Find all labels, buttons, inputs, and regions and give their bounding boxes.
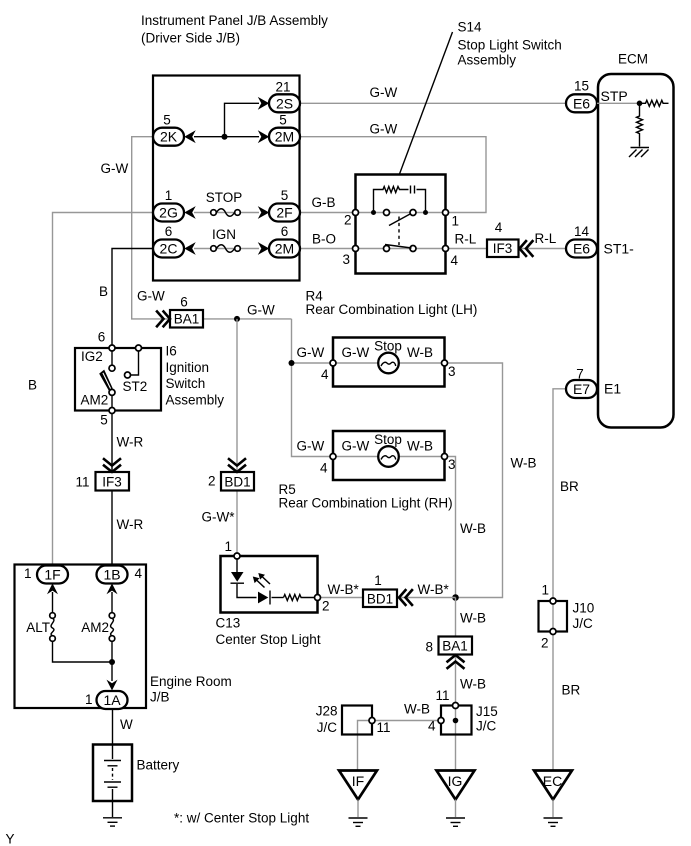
wire W-R from IF3 down to engine room J/B 1B — [111, 491, 113, 567]
svg-text:ALT: ALT — [26, 620, 50, 635]
C13 terminal circles — [234, 553, 240, 559]
svg-text:6: 6 — [281, 224, 289, 239]
circuit breaker AM2 — [81, 592, 115, 662]
svg-text:Stop Light Switch: Stop Light Switch — [458, 38, 562, 53]
S14 stop light switch label — [458, 20, 562, 68]
svg-text:Center Stop Light: Center Stop Light — [216, 632, 321, 647]
bulb stop lamp R4 — [378, 353, 399, 374]
bulb stop lamp R5 — [378, 446, 399, 467]
svg-text:6: 6 — [165, 224, 173, 239]
svg-text:STOP: STOP — [206, 190, 243, 205]
svg-text:4: 4 — [495, 220, 503, 235]
switch contact circles top row — [384, 210, 390, 216]
svg-text:J28: J28 — [316, 704, 338, 719]
svg-text:6: 6 — [180, 295, 188, 310]
dashed link between switch poles — [398, 217, 400, 246]
node dot switch right — [423, 210, 428, 215]
ignition contact circles — [109, 345, 115, 351]
wire down to 1A — [111, 662, 113, 681]
chevron connector at BD1 1 — [399, 590, 412, 605]
ECM box — [598, 74, 674, 428]
connector oval 2M pin 6 — [269, 224, 300, 258]
svg-text:EC: EC — [543, 773, 562, 789]
wire B-O from 2M to switch pin 3 — [300, 248, 355, 250]
connector oval 2K pin 5 — [153, 113, 184, 146]
connector BA1 pin 8 — [425, 637, 472, 655]
svg-text:Stop: Stop — [374, 432, 402, 447]
svg-text:3: 3 — [448, 457, 456, 472]
svg-text:IF3: IF3 — [102, 475, 122, 490]
svg-text:2C: 2C — [160, 241, 178, 257]
svg-text:Engine Room: Engine Room — [150, 674, 232, 689]
svg-text:(Driver Side J/B): (Driver Side J/B) — [141, 31, 240, 46]
chevron connector below BA1 — [448, 655, 464, 668]
svg-text:W-B*: W-B* — [418, 582, 450, 597]
arrow into 2M lower — [258, 242, 269, 255]
svg-text:R-L: R-L — [535, 231, 557, 246]
wire G-W down to BD1 connector 2 — [236, 319, 238, 472]
ground triangle IG — [437, 771, 475, 827]
svg-text:4: 4 — [451, 253, 459, 268]
wire W-B* from center stop light pin 2 to BD1 — [321, 597, 364, 599]
svg-text:2: 2 — [322, 599, 330, 614]
svg-text:2: 2 — [208, 474, 216, 489]
svg-text:BR: BR — [560, 479, 579, 494]
svg-text:15: 15 — [574, 79, 589, 94]
svg-text:Rear Combination Light (LH): Rear Combination Light (LH) — [306, 302, 478, 317]
chevron connector at IF3 — [520, 241, 533, 256]
connector oval 2M pin 5 — [269, 113, 300, 146]
arrow down into 1A — [107, 680, 118, 691]
node junction dot after BA1 — [234, 316, 240, 322]
arrow into 2K — [184, 130, 195, 143]
chevron connector at IF3 11 — [104, 459, 120, 472]
connector IF3 pin 11 — [75, 472, 129, 491]
wire internal switch top row — [359, 212, 443, 214]
svg-text:W-R: W-R — [117, 435, 144, 450]
wire W-B* from junction to BD1 connector 1 — [397, 597, 456, 599]
wire G-W from 2K down to BA1 connector — [132, 137, 170, 319]
battery box — [93, 745, 132, 802]
blade — [99, 370, 113, 391]
svg-text:IF3: IF3 — [493, 241, 513, 256]
svg-text:STP: STP — [601, 88, 628, 104]
svg-text:*: w/ Center Stop Light: *: w/ Center Stop Light — [174, 811, 309, 826]
ignition switch I6 box — [75, 348, 161, 411]
wire to node — [597, 102, 640, 104]
svg-text:1B: 1B — [103, 567, 120, 583]
svg-text:G-W: G-W — [342, 345, 370, 360]
connector oval 2C pin 6 — [153, 224, 184, 258]
svg-text:G-W: G-W — [297, 345, 325, 360]
wire G-W from 2S to ECM E6 STP — [300, 102, 567, 104]
wire from J28 down to IF ground — [358, 721, 370, 771]
ECM internal STP circuit — [597, 100, 669, 157]
svg-text:W-B: W-B — [460, 521, 486, 536]
svg-text:Assembly: Assembly — [166, 393, 225, 408]
leader line S14 — [400, 32, 453, 174]
battery symbol — [104, 745, 121, 818]
svg-text:Y: Y — [6, 832, 15, 846]
ground below battery — [103, 818, 122, 826]
label Engine Room J/B — [150, 674, 232, 705]
arrow up into 1B — [107, 583, 118, 594]
chevron connector at BD1 2 — [229, 459, 245, 472]
svg-text:1: 1 — [24, 566, 32, 581]
svg-text:6: 6 — [98, 330, 106, 345]
svg-text:1: 1 — [224, 539, 232, 554]
svg-text:E1: E1 — [604, 381, 621, 397]
svg-text:2F: 2F — [276, 205, 292, 221]
ground triangle IF — [339, 771, 377, 827]
svg-text:AM2: AM2 — [81, 620, 109, 635]
instrument panel J/B assembly box — [153, 76, 300, 281]
svg-text:3: 3 — [342, 252, 350, 267]
wire internal switch bottom row — [359, 248, 443, 250]
wire W-B from junction down to BA1 connector 8 — [455, 598, 457, 637]
svg-text:11: 11 — [75, 475, 89, 490]
svg-text:2K: 2K — [160, 129, 178, 145]
connector oval E6 pin 15 STP — [566, 79, 628, 113]
wire G-W from BA1 to junction and R4/R5 branch — [203, 318, 292, 320]
svg-text:5: 5 — [281, 188, 289, 203]
resistor — [284, 595, 315, 601]
wire R-L from IF3 to ECM E6 ST1- — [519, 248, 568, 250]
svg-text:ECM: ECM — [618, 52, 648, 67]
wire W-B from R5 pin 3 down to junction — [448, 457, 456, 598]
svg-text:11: 11 — [435, 688, 449, 703]
svg-text:J15: J15 — [476, 704, 498, 719]
connector oval 1B pin 4 — [97, 566, 143, 584]
connector BD1 pin 2 — [208, 472, 254, 491]
svg-text:2: 2 — [541, 636, 549, 651]
wire internal IGN fuse row — [194, 248, 259, 250]
svg-text:1: 1 — [85, 692, 93, 707]
connector IF3 pin 4 — [487, 220, 519, 257]
svg-text:ST1-: ST1- — [604, 241, 635, 257]
svg-text:14: 14 — [574, 224, 590, 239]
node junction dot G-W at R4 branch — [289, 360, 295, 366]
fuse STOP — [206, 190, 243, 216]
svg-text:B: B — [99, 284, 108, 299]
svg-text:IGN: IGN — [212, 227, 236, 242]
wire W-B from J28 to J15 — [375, 720, 439, 722]
rear combination light R4 box — [333, 338, 445, 387]
svg-text:21: 21 — [275, 80, 290, 95]
wire G-B from 2F to switch pin 2 — [300, 212, 355, 214]
wire G-W branch to R4 pin 4 — [292, 362, 334, 364]
engine room J/B box — [15, 565, 147, 709]
svg-text:J/C: J/C — [573, 616, 594, 631]
svg-text:IG: IG — [448, 773, 463, 789]
label I6 ignition switch assembly — [166, 344, 225, 408]
LED horizontal — [258, 592, 268, 604]
svg-text:J/C: J/C — [317, 720, 338, 735]
svg-text:1A: 1A — [103, 692, 121, 708]
wire internal 2K to 2M row — [194, 136, 259, 138]
svg-text:J/B: J/B — [150, 690, 170, 705]
svg-text:Battery: Battery — [137, 758, 180, 773]
svg-text:W-B: W-B — [460, 677, 486, 692]
junction connector J28 J/C — [316, 704, 391, 736]
svg-text:J/C: J/C — [476, 719, 497, 734]
svg-text:2S: 2S — [276, 95, 293, 111]
svg-text:G-W: G-W — [370, 122, 398, 137]
svg-text:I6: I6 — [166, 344, 177, 359]
arrow up into 1F — [47, 583, 58, 594]
svg-text:BA1: BA1 — [174, 312, 200, 327]
svg-text:Instrument Panel J/B Assembly: Instrument Panel J/B Assembly — [141, 13, 328, 28]
svg-text:G-W: G-W — [297, 439, 325, 454]
svg-text:7: 7 — [576, 367, 584, 382]
label R5 rear combination light RH — [279, 482, 453, 511]
connector oval E7 pin 7 E1 — [566, 367, 621, 399]
svg-text:8: 8 — [425, 640, 433, 655]
connector oval 2S pin 21 — [269, 80, 300, 113]
ignition switch internals — [99, 351, 138, 408]
connector oval 2F pin 5 — [269, 188, 300, 222]
svg-text:ST2: ST2 — [123, 379, 148, 394]
svg-text:5: 5 — [163, 113, 171, 128]
wire B from 2C down to ignition switch terminal 6 — [112, 249, 153, 347]
svg-text:1: 1 — [452, 214, 460, 229]
svg-text:BD1: BD1 — [367, 592, 393, 607]
svg-text:1: 1 — [165, 188, 173, 203]
connector oval E6 pin 14 ST1- — [566, 224, 634, 258]
arrow into 2G — [184, 206, 195, 219]
C13 internals: LEDs and resistor — [231, 559, 315, 605]
svg-text:5: 5 — [279, 113, 287, 128]
rear combination light R5 box — [333, 431, 445, 480]
label R4 rear combination light LH — [306, 289, 478, 318]
svg-text:AM2: AM2 — [81, 393, 109, 408]
svg-text:W-B: W-B — [407, 345, 433, 360]
svg-text:G-W: G-W — [101, 161, 129, 176]
svg-text:B: B — [28, 378, 37, 393]
svg-text:4: 4 — [428, 719, 436, 734]
connector BA1 pin 6 — [170, 295, 203, 328]
svg-text:W: W — [120, 717, 133, 732]
ground chassis symbol — [631, 147, 650, 149]
svg-text:BA1: BA1 — [442, 639, 468, 654]
svg-text:4: 4 — [320, 461, 328, 476]
arrow into 2C — [184, 242, 195, 255]
svg-text:G-W*: G-W* — [202, 510, 236, 525]
svg-text:1: 1 — [542, 583, 550, 598]
svg-text:R-L: R-L — [455, 232, 477, 247]
svg-text:E7: E7 — [573, 381, 590, 397]
svg-text:IG2: IG2 — [81, 349, 103, 364]
wire from J15 down to IG ground — [455, 723, 457, 770]
svg-text:1F: 1F — [44, 567, 60, 583]
emission arrows — [257, 577, 271, 588]
wire W-R from ignition switch 5 to IF3 connector 11 — [111, 412, 113, 473]
svg-text:G-W: G-W — [370, 85, 398, 100]
node dot — [637, 101, 643, 107]
svg-text:B-O: B-O — [312, 232, 336, 247]
R5 terminal circles — [330, 454, 336, 460]
node junction dot W-B — [452, 594, 459, 601]
svg-text:Stop: Stop — [374, 339, 402, 354]
svg-text:E6: E6 — [573, 95, 590, 111]
arrow into 2M — [258, 130, 269, 143]
svg-text:G-W: G-W — [247, 303, 275, 318]
svg-text:BR: BR — [562, 683, 581, 698]
wire W-B from R4 pin 3 down to junction — [448, 363, 503, 598]
svg-text:Ignition: Ignition — [166, 360, 210, 375]
svg-text:11: 11 — [377, 720, 391, 735]
svg-text:J10: J10 — [573, 601, 595, 616]
svg-text:S14: S14 — [458, 20, 483, 35]
chevron connector at BA1 — [157, 312, 170, 327]
svg-text:Assembly: Assembly — [458, 53, 517, 68]
svg-text:W-R: W-R — [117, 517, 144, 532]
wire W from 1A to battery — [112, 709, 114, 745]
resistor horizontal — [640, 100, 669, 106]
svg-text:W-B: W-B — [404, 702, 430, 717]
ground triangle EC — [534, 771, 572, 827]
svg-text:IF: IF — [352, 773, 364, 789]
connector BD1 pin 1 — [363, 573, 397, 607]
wire internal R4 — [336, 362, 442, 364]
svg-text:G-W: G-W — [342, 439, 370, 454]
RC snubber in switch: resistor and capacitor — [374, 186, 426, 213]
wire internal R5 — [336, 456, 442, 458]
svg-text:G-W: G-W — [137, 289, 165, 304]
svg-text:1: 1 — [374, 573, 382, 588]
circuit breaker ALT — [26, 592, 112, 662]
wire BR from ECM E7 E1 down to J10 — [553, 389, 567, 599]
wire BR from J10 down to EC ground — [552, 634, 554, 770]
fuse IGN — [211, 227, 241, 252]
svg-text:4: 4 — [135, 566, 143, 581]
R4 terminal circles — [330, 360, 336, 366]
svg-text:2M: 2M — [275, 129, 294, 145]
svg-text:2: 2 — [344, 213, 352, 228]
connector oval 1A pin 1 — [85, 691, 128, 709]
wire G-W* from BD1 down to center stop light pin 1 — [236, 490, 238, 554]
center stop light C13 box — [221, 556, 318, 613]
switch blade bottom — [385, 245, 412, 249]
svg-text:E6: E6 — [573, 241, 590, 257]
svg-text:W-B: W-B — [460, 611, 486, 626]
node junction dot in J/B — [222, 134, 228, 140]
svg-text:2G: 2G — [159, 205, 178, 221]
svg-text:Rear Combination Light (RH): Rear Combination Light (RH) — [279, 496, 453, 511]
wire W-B from BA1 down to J15 junction connector — [455, 655, 457, 704]
wire internal STOP fuse row — [194, 212, 259, 214]
stop light switch S14 box — [356, 175, 446, 274]
wire R-L from switch pin 4 to IF3 connector — [448, 248, 487, 250]
switch contact circles bottom row — [384, 246, 390, 252]
svg-text:C13: C13 — [216, 616, 241, 631]
wire internal branch to 2S — [225, 103, 260, 136]
wire G-W vertical feed to rear combination lights — [292, 319, 334, 457]
svg-text:W-B: W-B — [407, 439, 433, 454]
node junction dot engine J/B — [109, 659, 115, 665]
label C13 center stop light — [216, 616, 321, 648]
resistor vertical — [637, 103, 643, 146]
arrow into 2S — [258, 97, 269, 110]
svg-text:4: 4 — [321, 367, 329, 382]
svg-text:2M: 2M — [275, 241, 294, 257]
connector oval 2G pin 1 — [153, 188, 184, 222]
LED vertical — [231, 572, 244, 582]
svg-text:5: 5 — [100, 413, 108, 428]
svg-text:W-B*: W-B* — [328, 582, 360, 597]
svg-text:G-B: G-B — [312, 195, 336, 210]
switch terminal circles on box edges — [353, 210, 359, 216]
svg-text:BD1: BD1 — [224, 475, 250, 490]
svg-text:W-B: W-B — [511, 456, 537, 471]
junction connector J10 J/C — [539, 583, 595, 651]
switch blade top — [389, 214, 411, 226]
wire B from 2G down to engine room J/B 1F — [53, 213, 154, 566]
svg-text:3: 3 — [448, 364, 456, 379]
node dot switch left — [371, 210, 376, 215]
wire G-W from 2M to stop light switch pin 1 — [300, 137, 486, 213]
connector oval 1F pin 1 — [24, 566, 68, 584]
arrow into 2F — [258, 206, 269, 219]
svg-text:Switch: Switch — [166, 376, 206, 391]
junction connector J15 J/C — [428, 688, 498, 735]
